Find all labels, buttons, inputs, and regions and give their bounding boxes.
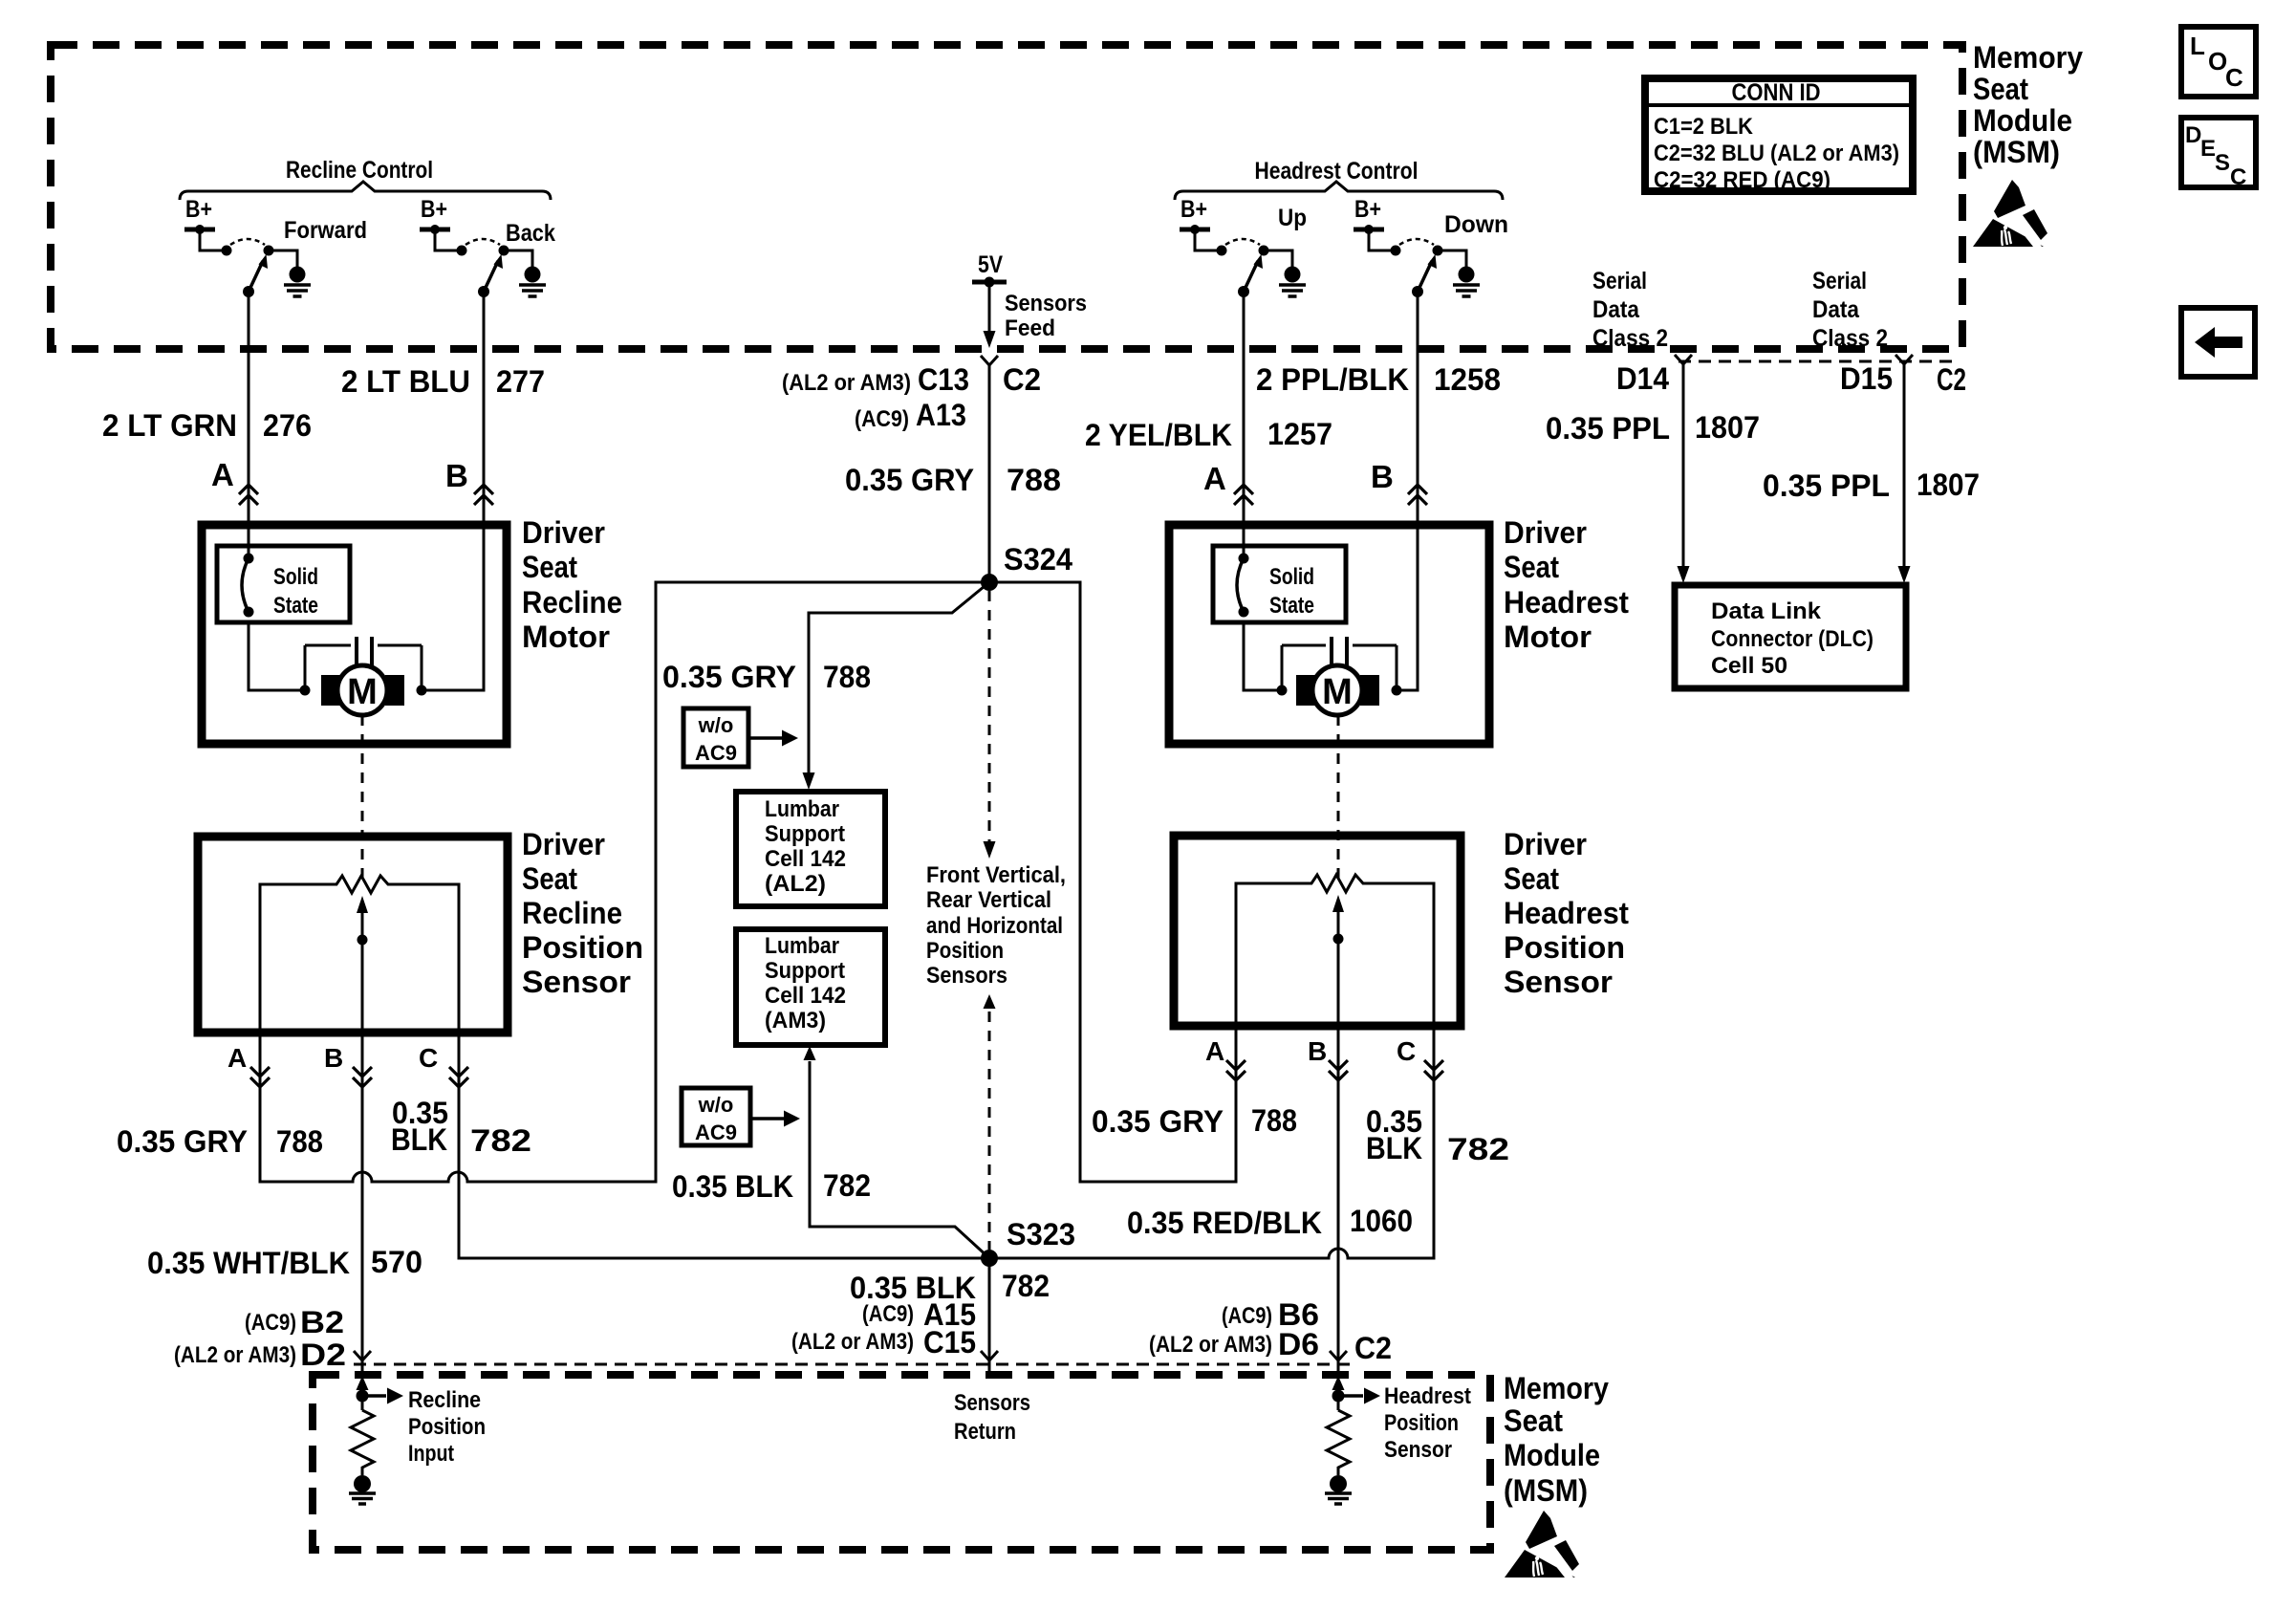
svg-text:L: L: [2190, 32, 2205, 60]
switch Back switch contact 2: [499, 246, 509, 256]
Memory Seat Module (MSM) bottom dashed boundary box: [313, 1375, 1490, 1550]
svg-text:(AL2 or AM3): (AL2 or AM3): [782, 370, 911, 396]
suppression capacitor (headrest motor): [1282, 637, 1402, 696]
Driver Seat Recline Position Sensor label: [522, 827, 643, 999]
Memory Seat Module (MSM) label top: [1973, 40, 2083, 169]
label 0.35 BLK 782 (sensors return): [850, 1269, 1050, 1305]
svg-text:Return: Return: [954, 1419, 1016, 1445]
switch Up switch dashed travel arc: [1225, 239, 1260, 245]
pin labels B6 D6 C2: [1149, 1297, 1392, 1365]
svg-text:Cell 50: Cell 50: [1711, 653, 1787, 679]
svg-text:Seat: Seat: [522, 550, 577, 584]
inline connector on headrest sensor pin B: [1329, 1060, 1348, 1080]
Front Vertical Rear Vertical and Horizontal Position Sensors label: [926, 862, 1066, 989]
switch Forward switch blade with arrow: [249, 254, 268, 292]
headrest position sensor input node: [1332, 1360, 1381, 1410]
label 2 LT GRN 276: [102, 408, 312, 443]
svg-text:Position: Position: [408, 1414, 486, 1440]
svg-text:C: C: [2225, 63, 2243, 92]
svg-text:Position: Position: [926, 938, 1004, 964]
connector pin D6 (bottom): [1330, 1351, 1347, 1360]
dashed wire to front/rear position sensors (lower): [984, 994, 996, 1250]
dashed mechanical link motor to position sensor (recline): [361, 715, 364, 878]
svg-text:Lumbar: Lumbar: [765, 933, 839, 959]
connector fine dashed line (bottom): [354, 1363, 1357, 1366]
recline position input node: [357, 1360, 404, 1410]
5V supply symbol: [972, 251, 1007, 288]
Driver Seat Headrest Position Sensor label: [1504, 827, 1629, 999]
pin A label (headrest motor): [1203, 461, 1226, 496]
switch Up switch contact 1: [1217, 246, 1227, 256]
label 0.35 RED/BLK 1060: [1127, 1204, 1413, 1240]
pin B label (recline motor): [445, 458, 468, 493]
svg-text:1258: 1258: [1434, 362, 1501, 397]
Serial Data Class 2 label (right): [1812, 268, 1888, 352]
svg-text:State: State: [273, 593, 318, 619]
svg-text:0.35 GRY: 0.35 GRY: [117, 1124, 248, 1159]
svg-text:Sensor: Sensor: [522, 965, 631, 999]
svg-text:Lumbar: Lumbar: [765, 796, 839, 822]
DESC icon box: [2181, 118, 2256, 190]
svg-text:Memory: Memory: [1504, 1371, 1609, 1405]
svg-text:B: B: [324, 1043, 343, 1073]
B+ battery feed (Forward switch): [184, 196, 215, 234]
svg-text:C: C: [1397, 1036, 1416, 1066]
svg-text:1257: 1257: [1267, 417, 1332, 451]
svg-text:782: 782: [1002, 1269, 1050, 1303]
connector C2 fine dashed line (top): [1679, 360, 1960, 363]
svg-text:C2: C2: [1354, 1331, 1392, 1365]
connector pin C15 (bottom): [981, 1351, 998, 1360]
svg-text:0.35 PPL: 0.35 PPL: [1763, 468, 1890, 503]
Driver Seat Recline Motor box: [202, 525, 507, 744]
svg-text:C15: C15: [923, 1325, 976, 1360]
Recline Position Input label: [408, 1387, 486, 1467]
svg-text:0.35 WHT/BLK: 0.35 WHT/BLK: [147, 1246, 350, 1280]
svg-text:0.35 RED/BLK: 0.35 RED/BLK: [1127, 1206, 1322, 1240]
wire contact 2 to ground (Up switch): [1264, 250, 1292, 268]
potentiometer resistor (recline sensor): [260, 876, 459, 1033]
svg-text:State: State: [1269, 593, 1314, 619]
svg-text:Sensor: Sensor: [1504, 965, 1613, 999]
pin B label (headrest sensor): [1308, 1036, 1327, 1066]
ground symbol (Up switch): [1279, 267, 1306, 297]
wire motor pin B internal (recline): [422, 525, 484, 690]
svg-text:0.35 GRY: 0.35 GRY: [1092, 1104, 1224, 1139]
svg-text:Motor: Motor: [522, 620, 610, 654]
svg-text:Data: Data: [1592, 296, 1640, 323]
pin B label (recline sensor): [324, 1043, 343, 1073]
wire 1257 Up switch to headrest motor pin A: [1243, 292, 1245, 555]
wire solid state to motor (headrest): [1244, 622, 1288, 696]
svg-text:Driver: Driver: [1504, 515, 1587, 550]
wire contact 2 to ground (Down switch): [1438, 250, 1466, 268]
svg-text:Recline: Recline: [408, 1387, 481, 1413]
svg-text:S: S: [2215, 150, 2230, 176]
svg-text:Sensor: Sensor: [1384, 1437, 1452, 1463]
svg-text:5V: 5V: [978, 251, 1003, 278]
svg-text:Position: Position: [1384, 1410, 1459, 1436]
svg-text:Support: Support: [765, 821, 845, 847]
svg-text:Serial: Serial: [1592, 268, 1647, 294]
svg-text:M: M: [1322, 672, 1353, 712]
svg-text:1060: 1060: [1350, 1204, 1413, 1238]
wire 277 Back switch to recline motor pin B: [483, 292, 486, 525]
wire 782 sensors return from S323 to module: [988, 1258, 991, 1360]
pin A label (headrest sensor): [1205, 1036, 1224, 1066]
svg-text:B+: B+: [1180, 196, 1207, 223]
wire B+ to switch contact (Up switch): [1195, 229, 1218, 250]
LOC icon box: [2181, 27, 2256, 97]
switch Down switch dashed travel arc: [1399, 239, 1434, 245]
B+ battery feed (Back switch): [420, 196, 450, 234]
inline connector on wire 1258: [1408, 485, 1427, 505]
svg-text:M: M: [347, 672, 378, 712]
label 0.35 GRY 788 (headrest sensor pin A): [1092, 1103, 1297, 1139]
Driver Seat Headrest Motor label: [1504, 515, 1629, 654]
svg-text:E: E: [2200, 136, 2216, 162]
svg-text:782: 782: [823, 1168, 871, 1203]
svg-text:Recline: Recline: [522, 585, 622, 620]
wire 1060 headrest position signal: [1337, 1026, 1340, 1360]
svg-text:C1=2 BLK: C1=2 BLK: [1654, 114, 1754, 140]
svg-text:C: C: [419, 1043, 438, 1073]
switch Forward switch dashed travel arc: [230, 239, 265, 245]
inline connector on recline sensor pin C: [449, 1067, 468, 1087]
potentiometer resistor (headrest sensor): [1236, 875, 1434, 1026]
label 0.35 GRY 788 (recline sensor pin A): [117, 1124, 323, 1159]
svg-text:2 PPL/BLK: 2 PPL/BLK: [1256, 362, 1409, 397]
svg-text:BLK: BLK: [391, 1122, 447, 1157]
Serial Data Class 2 label (left): [1592, 268, 1668, 352]
wire 788 from S324 to headrest sensor pin A (right loop): [989, 582, 1236, 1182]
svg-text:Cell 142: Cell 142: [765, 846, 846, 872]
switch Down switch contact 1: [1391, 246, 1401, 256]
svg-text:B+: B+: [421, 196, 447, 223]
motor M (recline): [321, 665, 404, 715]
Data Link Connector (DLC) box: [1675, 585, 1906, 688]
svg-text:w/o: w/o: [698, 1093, 734, 1117]
svg-text:(AL2 or AM3): (AL2 or AM3): [791, 1329, 914, 1355]
svg-text:A: A: [227, 1043, 247, 1073]
potentiometer wiper (recline sensor): [357, 896, 368, 1033]
solid state switch (headrest motor): [1213, 546, 1346, 622]
svg-text:(AL2 or AM3): (AL2 or AM3): [1149, 1332, 1272, 1358]
connector C2 pin C13 at module boundary: [981, 356, 998, 365]
svg-text:S323: S323: [1007, 1217, 1075, 1251]
wire contact 2 to ground (Forward switch): [269, 250, 297, 268]
svg-text:Rear Vertical: Rear Vertical: [926, 887, 1051, 913]
svg-text:Input: Input: [408, 1441, 454, 1467]
wire 782 from Lumbar (AM3) down to S323 branch: [804, 1046, 990, 1258]
Memory Seat Module (MSM) label bottom: [1504, 1371, 1609, 1508]
svg-text:Seat: Seat: [1973, 72, 2028, 106]
svg-text:Memory: Memory: [1973, 40, 2083, 75]
label Up (Up switch): [1278, 205, 1307, 231]
svg-text:Serial: Serial: [1812, 268, 1867, 294]
svg-text:Back: Back: [506, 220, 555, 247]
svg-text:BLK: BLK: [1366, 1131, 1422, 1165]
pin C label (recline sensor): [419, 1043, 438, 1073]
svg-text:(AC9): (AC9): [1222, 1303, 1272, 1329]
svg-text:Sensors: Sensors: [954, 1390, 1030, 1416]
svg-text:0.35 BLK: 0.35 BLK: [672, 1169, 793, 1204]
svg-text:Down: Down: [1444, 211, 1508, 238]
svg-text:Position: Position: [522, 930, 643, 965]
switch Back switch common node: [478, 286, 489, 297]
label Down (Down switch): [1444, 211, 1508, 238]
svg-text:(AC9): (AC9): [862, 1301, 914, 1327]
svg-text:0.35 GRY: 0.35 GRY: [845, 463, 974, 497]
inline connector on wire 1257: [1234, 485, 1253, 505]
switch Down switch common node: [1412, 286, 1423, 297]
pin labels C13 A13 C2: [782, 362, 1041, 432]
svg-text:Cell 142: Cell 142: [765, 983, 846, 1009]
svg-text:Sensors: Sensors: [926, 963, 1007, 989]
svg-text:Position: Position: [1504, 930, 1625, 965]
svg-text:Data: Data: [1812, 296, 1860, 323]
svg-text:1807: 1807: [1917, 468, 1980, 502]
svg-text:Class 2: Class 2: [1592, 325, 1668, 352]
svg-text:B: B: [1371, 459, 1394, 494]
switch Down switch blade with arrow: [1418, 254, 1437, 292]
pin labels A15 C15: [791, 1297, 976, 1360]
svg-text:(AC9): (AC9): [245, 1310, 296, 1336]
wire contact 2 to ground (Back switch): [504, 250, 532, 268]
resistor recline position input: [351, 1410, 374, 1475]
svg-text:788: 788: [1007, 463, 1061, 497]
pin A label (recline motor): [211, 457, 234, 492]
wire B+ to switch contact (Back switch): [435, 229, 458, 250]
label 2 YEL/BLK 1257: [1085, 417, 1332, 452]
svg-text:and Horizontal: and Horizontal: [926, 913, 1063, 939]
wire 1807 serial data D14 to DLC: [1678, 364, 1690, 583]
svg-text:782: 782: [1447, 1132, 1509, 1166]
switch Forward switch common node: [243, 286, 254, 297]
splice S323: [981, 1217, 1075, 1267]
svg-text:Headrest: Headrest: [1384, 1383, 1471, 1409]
label 0.35 WHT/BLK 570: [147, 1245, 422, 1280]
svg-text:D: D: [2185, 122, 2201, 148]
Recline Control label and brace: [180, 157, 551, 200]
wire 782 recline sensor pin C to S323: [459, 1033, 989, 1258]
Lumbar Support Cell 142 (AL2) box: [736, 792, 885, 906]
connector pin D15: [1840, 355, 1966, 397]
svg-text:Driver: Driver: [1504, 827, 1587, 861]
ground symbol (Back switch): [519, 267, 546, 297]
Driver Seat Headrest Position Sensor box: [1174, 836, 1461, 1026]
Sensors Feed label: [1005, 291, 1087, 341]
svg-text:1807: 1807: [1695, 410, 1760, 445]
svg-text:Sensors: Sensors: [1005, 291, 1087, 316]
svg-text:A13: A13: [916, 398, 966, 432]
label 0.35 PPL 1807 (D14): [1546, 410, 1760, 446]
wire 1060 S323 to headrest sensor pin C (with hop): [989, 1026, 1434, 1258]
svg-text:782: 782: [470, 1123, 531, 1158]
ground symbol (Down switch): [1453, 267, 1480, 297]
svg-text:Headrest: Headrest: [1504, 585, 1629, 620]
svg-text:A: A: [1205, 1036, 1224, 1066]
suppression capacitor (recline motor): [305, 637, 427, 696]
wire B+ to switch contact (Down switch): [1369, 229, 1392, 250]
svg-text:Module: Module: [1504, 1438, 1600, 1472]
svg-text:S324: S324: [1004, 542, 1072, 577]
splice S324: [981, 542, 1072, 591]
svg-text:276: 276: [263, 408, 312, 443]
svg-text:Forward: Forward: [284, 217, 367, 244]
svg-text:Seat: Seat: [1504, 1403, 1563, 1438]
connector pin D2 (bottom): [354, 1351, 371, 1360]
B+ battery feed (Down switch): [1354, 196, 1384, 234]
dashed wire to front/rear position sensors (upper): [984, 591, 996, 859]
inline connector on recline sensor pin A: [250, 1067, 270, 1087]
wire motor pin B internal (headrest): [1397, 525, 1418, 690]
wire 788 from S324 to recline sensor pin A (left loop with hops): [260, 582, 989, 1182]
svg-text:C2: C2: [1937, 362, 1966, 397]
Headrest Control label and brace: [1175, 158, 1503, 200]
ESD sensitive device symbol (top): [1973, 180, 2047, 247]
svg-text:B: B: [445, 458, 468, 493]
svg-text:B: B: [1308, 1036, 1327, 1066]
wire solid state to motor (recline): [249, 622, 311, 696]
ground headrest position input: [1325, 1475, 1352, 1504]
inline connector on wire 277: [474, 485, 493, 505]
svg-text:AC9: AC9: [695, 1120, 737, 1144]
svg-text:0.35 GRY: 0.35 GRY: [662, 660, 796, 694]
pin B label (headrest motor): [1371, 459, 1394, 494]
dashed mechanical link motor to position sensor (headrest): [1337, 715, 1340, 878]
Lumbar Support Cell 142 (AM3) box: [736, 929, 885, 1045]
svg-text:Seat: Seat: [1504, 861, 1559, 896]
svg-text:CONN ID: CONN ID: [1732, 79, 1821, 106]
wire 276 Forward switch to recline motor pin A: [248, 292, 250, 555]
CONN ID table: [1645, 78, 1913, 193]
svg-text:D15: D15: [1840, 361, 1893, 396]
svg-text:C2=32 RED (AC9): C2=32 RED (AC9): [1654, 167, 1830, 193]
back arrow icon box: [2181, 308, 2255, 377]
switch Forward switch contact 1: [222, 246, 232, 256]
svg-text:Front Vertical,: Front Vertical,: [926, 862, 1066, 888]
svg-text:Motor: Motor: [1504, 620, 1592, 654]
svg-text:Headrest: Headrest: [1504, 896, 1629, 930]
inline connector on headrest sensor pin A: [1226, 1060, 1245, 1080]
svg-text:Feed: Feed: [1005, 315, 1055, 341]
svg-text:C13: C13: [918, 362, 969, 397]
potentiometer wiper (headrest sensor): [1332, 895, 1344, 1026]
Headrest Position Sensor label: [1384, 1383, 1471, 1463]
svg-text:(MSM): (MSM): [1504, 1473, 1588, 1508]
Driver Seat Recline Position Sensor box: [198, 837, 508, 1033]
solid state switch (recline motor): [217, 546, 350, 622]
svg-text:D6: D6: [1278, 1327, 1319, 1361]
label 0.35 PPL 1807 (D15): [1763, 468, 1980, 503]
switch Back switch dashed travel arc: [466, 239, 500, 245]
wire 5V sensors feed with arrow: [984, 284, 996, 348]
motor M (headrest): [1296, 665, 1379, 715]
svg-text:Recline Control: Recline Control: [286, 157, 433, 184]
svg-text:277: 277: [496, 364, 545, 399]
switch Down switch contact 2: [1433, 246, 1443, 256]
svg-text:A: A: [1203, 461, 1226, 496]
switch Back switch contact 1: [457, 246, 467, 256]
inline connector on recline sensor pin B: [353, 1067, 372, 1087]
svg-text:(MSM): (MSM): [1973, 135, 2060, 169]
Driver Seat Recline Motor label: [522, 515, 622, 654]
svg-text:2 YEL/BLK: 2 YEL/BLK: [1085, 418, 1232, 452]
svg-text:C: C: [2230, 164, 2246, 190]
wire 788 branch from S324 to lumbar support: [803, 582, 990, 790]
svg-text:(AC9): (AC9): [855, 406, 909, 432]
svg-text:B+: B+: [185, 196, 212, 223]
wire 1258 Down switch to headrest motor pin B: [1417, 292, 1419, 525]
switch Up switch blade with arrow: [1244, 254, 1263, 292]
svg-text:D14: D14: [1616, 361, 1669, 396]
svg-text:Recline: Recline: [522, 896, 622, 930]
label 0.35 GRY 788 (lumbar branch): [662, 660, 871, 694]
svg-text:570: 570: [371, 1245, 422, 1279]
svg-text:2 LT BLU: 2 LT BLU: [341, 364, 470, 399]
svg-text:788: 788: [823, 660, 871, 694]
svg-text:2 LT GRN: 2 LT GRN: [102, 408, 237, 443]
option flag w/o AC9 upper: [683, 708, 798, 767]
resistor headrest position input: [1327, 1410, 1350, 1475]
label Forward (Forward switch): [284, 217, 367, 244]
pin A label (recline sensor): [227, 1043, 247, 1073]
ESD sensitive device symbol (bottom): [1505, 1511, 1579, 1577]
switch Back switch blade with arrow: [484, 254, 503, 292]
option flag w/o AC9 lower: [682, 1088, 800, 1145]
svg-text:D2: D2: [300, 1338, 346, 1372]
label 0.35 BLK 782 (recline sensor pin C): [391, 1096, 531, 1158]
svg-text:B2: B2: [300, 1305, 344, 1339]
wire 1807 serial data D15 to DLC: [1898, 364, 1911, 583]
svg-text:Solid: Solid: [273, 564, 318, 590]
wire 788 sensors feed vertical: [988, 365, 991, 582]
svg-text:w/o: w/o: [698, 713, 734, 737]
wire 570 recline position signal: [361, 1033, 364, 1360]
svg-text:Class 2: Class 2: [1812, 325, 1888, 352]
svg-text:788: 788: [276, 1124, 323, 1159]
pin C label (headrest sensor): [1397, 1036, 1416, 1066]
svg-text:B+: B+: [1354, 196, 1381, 223]
wire B+ to switch contact (Forward switch): [200, 229, 223, 250]
label 0.35 GRY 788 (feed): [845, 463, 1061, 497]
B+ battery feed (Up switch): [1180, 196, 1210, 234]
switch Up switch common node: [1238, 286, 1249, 297]
svg-text:(AM3): (AM3): [765, 1008, 826, 1033]
switch Forward switch contact 2: [264, 246, 274, 256]
svg-text:(AL2): (AL2): [765, 871, 826, 897]
label 2 LT BLU 277: [341, 364, 545, 399]
svg-text:Seat: Seat: [522, 861, 577, 896]
svg-text:Connector (DLC): Connector (DLC): [1711, 626, 1874, 652]
svg-text:AC9: AC9: [695, 741, 737, 765]
label 0.35 BLK 782 (headrest sensor pin C): [1366, 1104, 1509, 1166]
label 0.35 BLK 782 (lumbar return): [672, 1168, 871, 1204]
svg-text:0.35 PPL: 0.35 PPL: [1546, 411, 1670, 446]
svg-text:Solid: Solid: [1269, 564, 1314, 590]
connector pin D14: [1616, 355, 1692, 396]
Sensors Return label: [954, 1390, 1030, 1445]
svg-text:788: 788: [1251, 1103, 1297, 1138]
label Back (Back switch): [506, 220, 555, 247]
svg-text:A: A: [211, 457, 234, 492]
svg-text:C2: C2: [1003, 362, 1041, 397]
sensors return node: [988, 1360, 991, 1375]
inline connector on headrest sensor pin C: [1424, 1060, 1443, 1080]
svg-text:Seat: Seat: [1504, 550, 1559, 584]
svg-text:Module: Module: [1973, 103, 2072, 138]
